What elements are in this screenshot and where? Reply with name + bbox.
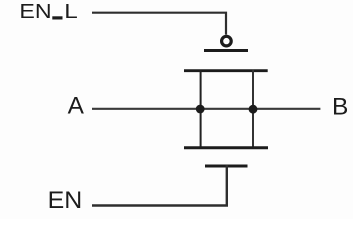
NMOS transistor gate bar xyxy=(205,165,248,168)
svg-text:L: L xyxy=(64,1,78,23)
wire from EN to NMOS gate xyxy=(92,165,227,206)
wire from EN_L to inversion bubble xyxy=(92,13,226,35)
junction dot right xyxy=(249,105,258,114)
svg-text:EN: EN xyxy=(19,1,51,23)
junction dot left xyxy=(196,105,205,114)
inversion bubble on PMOS gate xyxy=(222,36,232,46)
right channel connection wire xyxy=(252,70,254,149)
left channel connection wire xyxy=(200,70,202,149)
svg-text:A: A xyxy=(68,93,85,120)
net label EN_L xyxy=(19,1,77,23)
wire A to B xyxy=(92,108,320,110)
svg-text:EN: EN xyxy=(48,187,83,214)
PMOS transistor channel bar (top of transmission gate) xyxy=(184,69,268,72)
NMOS transistor channel bar (bottom of transmission gate) xyxy=(184,146,268,149)
PMOS transistor gate bar xyxy=(204,49,248,52)
svg-text:B: B xyxy=(332,93,348,120)
